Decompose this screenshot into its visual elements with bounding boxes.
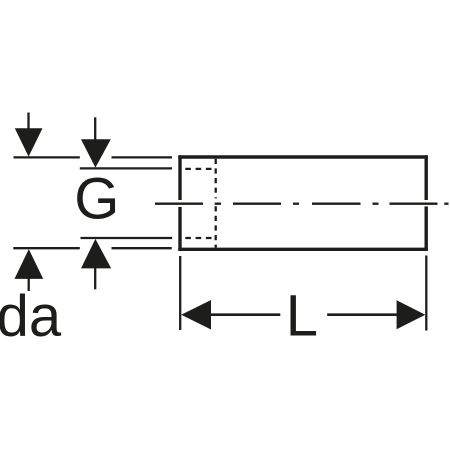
svg-text:da: da [0,284,62,349]
extension line da bottom (outer diameter, lower) [13,247,171,249]
arrowhead L left [181,300,211,330]
arrowhead L right [397,300,426,329]
dimension arrow G bottom (up arrow with tail) [81,239,111,289]
extension line G top (thread diameter, upper) [80,167,172,169]
extension line L right (below body) [425,256,427,331]
label da [0,284,62,349]
dimension line L with arrowheads [209,313,398,316]
internal thread hidden line top (dashed) [185,168,215,170]
dimension arrow da bottom (up arrow with tail) [15,249,44,291]
centerline (dash-dot axis line) [155,203,449,205]
extension line G bottom (thread diameter, lower) [81,237,173,239]
dimension arrow da top (down arrow with tail) [15,113,43,157]
label G [74,167,119,232]
label L [286,284,318,349]
fitting body outline (rectangle, thick stroke with gaps at centerline) [178,155,428,251]
svg-text:G: G [74,167,119,232]
internal thread hidden line bottom (dashed) [185,237,215,239]
extension line L left (below body) [179,256,181,330]
svg-text:L: L [286,284,318,349]
dimension arrow G top (down arrow with tail) [81,117,111,167]
internal thread hidden line vertical (dashed) [215,159,217,248]
extension line da top (outer diameter, upper) [14,156,173,158]
